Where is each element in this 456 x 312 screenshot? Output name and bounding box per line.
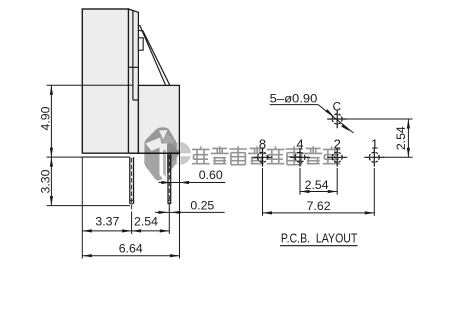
pcb hole 2 xyxy=(327,148,347,167)
extension line hole C right xyxy=(346,118,413,120)
svg-text:4.90: 4.90 xyxy=(39,106,53,130)
pcb hole 1 xyxy=(364,148,384,167)
dimension line 4.90/3.30 xyxy=(50,85,52,205)
svg-text:6.64: 6.64 xyxy=(119,241,143,255)
latch bump xyxy=(138,38,143,50)
extension line pin2 center xyxy=(168,206,170,234)
svg-text:P.C.B. LAYOUT: P.C.B. LAYOUT xyxy=(281,231,358,246)
dimension line 3.37 / 2.54 xyxy=(82,230,169,232)
svg-text:3.37: 3.37 xyxy=(95,215,119,229)
wafer joint tick upper xyxy=(129,66,139,68)
pcb hole C xyxy=(327,110,347,129)
watermark logo stem core xyxy=(163,150,166,177)
connector side wafer column xyxy=(129,9,139,153)
svg-text:0.25: 0.25 xyxy=(190,199,214,213)
watermark logo light facet xyxy=(160,130,176,148)
dimension 2.54 vertical xyxy=(407,119,409,157)
base flange bottom line xyxy=(82,156,130,158)
title underline xyxy=(280,245,358,247)
watermark logo dark corner xyxy=(159,142,180,163)
leader line xyxy=(318,105,353,133)
extension line hole 2 down xyxy=(336,168,338,195)
extension line hole 1 right xyxy=(383,156,413,158)
pcb hole 8 xyxy=(253,148,273,167)
svg-text:C: C xyxy=(333,102,341,114)
watermark logo white notch xyxy=(159,130,168,139)
dimension 0.25 xyxy=(155,211,225,213)
svg-text:0.60: 0.60 xyxy=(199,168,223,182)
extension line pin1 center xyxy=(131,212,133,235)
latch lever outer line xyxy=(138,25,166,85)
watermark logo shield xyxy=(144,127,176,180)
pcb hole 4 xyxy=(290,148,310,167)
base bottom line xyxy=(82,152,179,154)
watermark logo white wedge xyxy=(146,138,163,152)
watermark cjk text xyxy=(192,146,340,165)
base flange strip xyxy=(82,153,130,157)
watermark logo white stem xyxy=(160,144,168,180)
watermark xyxy=(144,127,340,180)
dimension 6.64 xyxy=(82,255,179,257)
wafer inner edge line xyxy=(132,11,134,100)
svg-text:1: 1 xyxy=(371,136,378,151)
right pin center line xyxy=(168,155,170,210)
svg-text:5–ø0.90: 5–ø0.90 xyxy=(270,91,318,105)
extension line hole 4 down xyxy=(299,168,301,195)
right pin xyxy=(167,153,169,204)
connector body front face xyxy=(82,9,128,153)
svg-text:2.54: 2.54 xyxy=(134,215,158,229)
extension line base bottom xyxy=(47,156,83,158)
svg-text:2.54: 2.54 xyxy=(305,178,329,192)
dimension 2.54 horizontal xyxy=(300,191,337,193)
extension line hole 1 down xyxy=(373,168,375,216)
extension line hole 8 down xyxy=(262,168,264,216)
extension line block top xyxy=(47,84,134,86)
left pin xyxy=(129,157,131,204)
watermark logo circle quarters xyxy=(168,142,191,165)
svg-text:7.62: 7.62 xyxy=(307,199,331,213)
dimension 7.62 xyxy=(263,212,375,214)
wafer joint tick lower xyxy=(133,99,139,101)
extension line body left xyxy=(81,157,83,258)
latch lever inner line xyxy=(138,30,170,85)
left pin center line xyxy=(131,158,133,210)
dimension 0.60 xyxy=(159,182,226,184)
right body block xyxy=(138,85,179,153)
extension line pin bottom xyxy=(47,205,130,207)
extension line block right xyxy=(179,153,181,258)
svg-text:3.30: 3.30 xyxy=(39,169,53,193)
svg-text:2.54: 2.54 xyxy=(394,126,408,150)
